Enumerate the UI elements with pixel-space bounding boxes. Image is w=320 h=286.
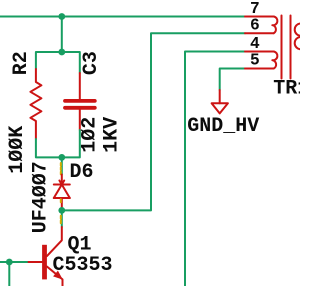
ERC mark below D6	[60, 199, 62, 202]
wire TR pin5 to GND	[220, 69, 245, 91]
ERC marks above D6	[60, 163, 62, 175]
svg-text:7: 7	[250, 0, 260, 18]
wire TR pin4 down	[185, 52, 245, 286]
node D6 bottom junction	[58, 207, 65, 214]
svg-text:TR1: TR1	[273, 77, 300, 100]
core	[281, 16, 283, 79]
resistor R2	[30, 69, 41, 139]
primary winding 7-6	[272, 17, 277, 34]
wire C3 bottom	[62, 130, 80, 157]
wire junction to D6	[61, 157, 63, 174]
right winding loops	[295, 23, 307, 35]
svg-text:1Ø2: 1Ø2	[78, 117, 101, 153]
svg-text:D6: D6	[70, 161, 94, 184]
diode D6	[54, 175, 70, 208]
svg-text:R2: R2	[10, 51, 33, 75]
wire top bus	[0, 16, 245, 18]
pin 4 lead	[245, 51, 274, 53]
pin 5 lead	[245, 68, 274, 70]
svg-text:1KV: 1KV	[101, 117, 124, 153]
secondary winding 4-5	[272, 52, 277, 69]
wire R2 bottom	[36, 139, 62, 157]
wire bus to RC junction	[61, 17, 63, 53]
pin 6 lead	[245, 32, 274, 34]
node RC top junction	[58, 49, 65, 56]
svg-text:5: 5	[250, 51, 260, 69]
ground GND_HV	[212, 90, 228, 113]
node base junction	[6, 259, 13, 266]
capacitor C3	[65, 73, 95, 130]
wire base junction down	[8, 262, 10, 286]
svg-text:C3: C3	[80, 51, 103, 75]
wire RC top tie	[36, 52, 80, 73]
svg-text:UF4ØØ7: UF4ØØ7	[29, 161, 52, 233]
node D6 top junction	[58, 154, 65, 161]
svg-text:Q1: Q1	[68, 233, 92, 256]
wire junction to Q1 collector	[61, 214, 63, 227]
svg-text:1ØØK: 1ØØK	[6, 126, 29, 174]
pin 7 lead	[245, 16, 274, 18]
svg-text:4: 4	[250, 35, 260, 53]
svg-text:6: 6	[250, 16, 260, 34]
svg-text:C5353: C5353	[53, 254, 113, 277]
ERC marks below junction	[60, 216, 62, 224]
node bus junction	[58, 13, 65, 20]
wire D6 junction to TR pin6	[62, 33, 245, 210]
wire Q1 base	[0, 261, 27, 263]
svg-text:GND_HV: GND_HV	[187, 115, 259, 138]
transformer TR1	[245, 16, 307, 79]
transistor Q1	[27, 227, 63, 286]
